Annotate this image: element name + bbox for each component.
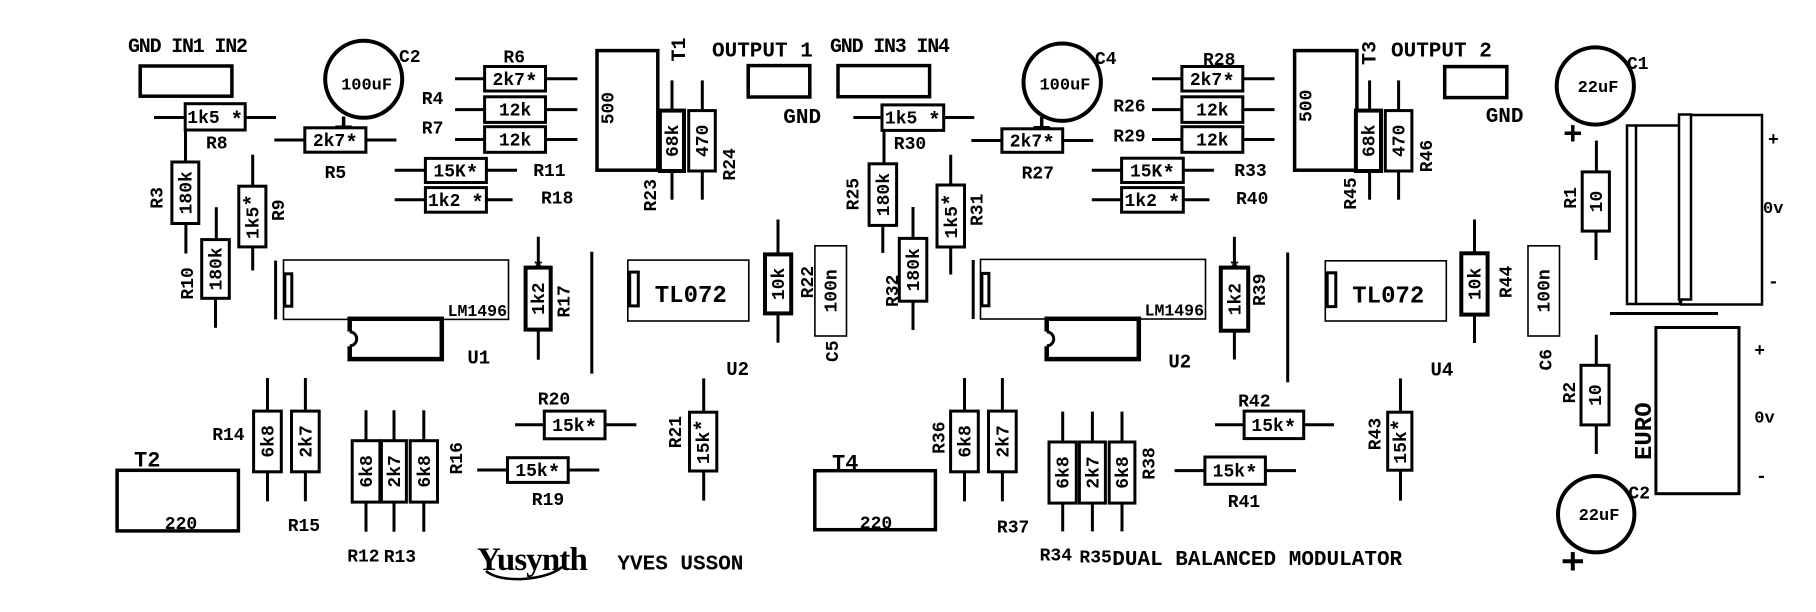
label R15 (288, 517, 320, 537)
svg-text:68k: 68k (1360, 124, 1380, 157)
svg-text:GND IN1 IN2: GND IN1 IN2 (128, 36, 247, 59)
wire (366, 139, 397, 142)
wire (455, 77, 485, 80)
wire (304, 378, 307, 411)
svg-text:R17: R17 (556, 285, 576, 317)
svg-text:100n: 100n (1536, 269, 1556, 312)
wire (912, 207, 915, 238)
svg-text:15k*: 15k* (1390, 419, 1413, 464)
svg-text:R26: R26 (1113, 98, 1145, 118)
svg-text:10k: 10k (770, 267, 790, 300)
svg-text:500: 500 (1298, 90, 1318, 122)
input header label IN3/IN4 (830, 36, 950, 59)
wire (777, 313, 780, 342)
label LM1496 U2b (1145, 302, 1204, 321)
svg-text:470: 470 (1391, 125, 1411, 157)
label R20 (538, 391, 570, 411)
label R35 (1079, 549, 1111, 569)
wire (1152, 108, 1182, 111)
wire (1001, 378, 1004, 411)
svg-text:R35: R35 (1079, 549, 1111, 569)
wire (546, 77, 578, 80)
svg-text:6k8: 6k8 (358, 455, 378, 487)
wire (422, 410, 425, 440)
label R25 (845, 178, 865, 210)
svg-text:R7: R7 (422, 120, 444, 140)
wire (251, 247, 254, 271)
svg-text:1k2: 1k2 (1227, 283, 1247, 315)
svg-text:R37: R37 (997, 518, 1029, 538)
label T2 (134, 449, 160, 474)
wire (912, 301, 915, 330)
svg-text:GND IN3 IN4: GND IN3 IN4 (830, 36, 950, 59)
connector J2 (GND IN3 IN4) (838, 66, 930, 97)
svg-text:Yusynth: Yusynth (477, 542, 587, 578)
svg-text:2k7: 2k7 (1084, 456, 1104, 488)
label R23 (642, 179, 662, 211)
label R28 (1203, 51, 1235, 71)
resistor R7 (485, 127, 546, 153)
svg-text:180k: 180k (208, 247, 228, 290)
svg-text:68k: 68k (664, 124, 684, 157)
capacitor C2 100uF (325, 41, 402, 118)
resistor R12 (352, 441, 380, 502)
input header label IN1/IN2 (128, 36, 247, 59)
resistor R19 (508, 458, 569, 486)
wire (304, 472, 307, 502)
pin1 bar U2b (972, 260, 975, 319)
svg-text:15k*: 15k* (693, 419, 716, 464)
label R38 (1140, 447, 1160, 479)
resistor R25 (869, 164, 897, 226)
wire (1091, 503, 1094, 531)
wire (1368, 171, 1371, 200)
label R24 (721, 148, 741, 181)
wire (702, 378, 705, 412)
wire (546, 108, 578, 111)
svg-text:R15: R15 (288, 517, 320, 537)
label R7 (422, 120, 444, 140)
label R46 (1418, 140, 1438, 172)
svg-text:180k: 180k (875, 173, 895, 216)
svg-text:TL072: TL072 (655, 283, 727, 310)
resistor R6 (485, 67, 546, 95)
resistor R29 (1182, 127, 1243, 153)
transformer T3 500 (1295, 51, 1357, 171)
svg-text:C2: C2 (399, 48, 421, 68)
wire (1610, 312, 1718, 315)
svg-text:R24: R24 (721, 148, 741, 181)
wire (1473, 220, 1476, 254)
wire (1595, 335, 1598, 366)
resistor R37 (989, 411, 1017, 472)
svg-text:R43: R43 (1367, 418, 1387, 450)
svg-text:C1: C1 (1627, 55, 1649, 75)
svg-text:2k7: 2k7 (297, 425, 317, 457)
resistor R40 (1122, 188, 1184, 216)
label R42 (1238, 393, 1270, 413)
svg-text:T1: T1 (669, 37, 692, 61)
label R18 (541, 190, 573, 210)
svg-text:*: * (532, 259, 544, 282)
wire (455, 138, 485, 141)
svg-text:100n: 100n (823, 269, 843, 312)
label R36 (931, 421, 951, 453)
label T3 (1359, 41, 1382, 65)
resistor R13 (381, 441, 406, 502)
label R11 (533, 162, 566, 182)
connector OUTPUT 2 (1445, 67, 1507, 98)
polarity plus C2b (1563, 552, 1583, 570)
label R1 (1562, 187, 1582, 209)
wire (1595, 141, 1598, 172)
op-amp U2 TL072 (628, 260, 749, 321)
wire (486, 169, 517, 172)
label plus bottom (1754, 342, 1765, 362)
svg-text:470: 470 (694, 125, 714, 157)
resistor R3 (172, 162, 199, 224)
svg-text:R31: R31 (969, 193, 989, 226)
wire (274, 139, 305, 142)
resistor R46 470 (1385, 111, 1412, 171)
wire (1040, 117, 1044, 138)
svg-text:+: + (1768, 131, 1779, 151)
resistor R4 (485, 97, 546, 123)
svg-text:R9: R9 (270, 199, 290, 221)
svg-text:C4: C4 (1095, 50, 1117, 70)
label R44 (1497, 265, 1517, 298)
label R37 (997, 518, 1029, 538)
label C5 (824, 340, 844, 362)
credit YVES USSON (617, 554, 743, 577)
connector EURO (1656, 328, 1739, 494)
svg-text:C6: C6 (1538, 349, 1558, 371)
pin1 notch U1 (285, 274, 292, 306)
resistor R21 (690, 412, 717, 471)
wire (1399, 470, 1402, 500)
label R33 (1234, 162, 1266, 182)
svg-text:R38: R38 (1140, 447, 1160, 479)
wire (944, 116, 975, 119)
svg-text:R8: R8 (206, 135, 228, 155)
resistor R17 (526, 259, 551, 330)
resistor R43 (1388, 412, 1413, 470)
wire (1183, 198, 1209, 201)
svg-text:12k: 12k (1196, 132, 1229, 152)
wire (251, 155, 254, 187)
svg-text:R4: R4 (422, 90, 444, 110)
polarity plus C4 (1034, 126, 1050, 130)
resistor R8 (185, 104, 245, 133)
wire (1233, 237, 1236, 268)
wire (949, 247, 952, 275)
label R10 (179, 267, 199, 299)
svg-text:R12: R12 (347, 547, 379, 567)
svg-text:R33: R33 (1234, 162, 1266, 182)
label R43 (1367, 418, 1387, 450)
capacitor C6 100n (1528, 246, 1560, 336)
wire (1265, 469, 1296, 472)
wire (1243, 138, 1275, 141)
svg-text:LM1496: LM1496 (1145, 302, 1204, 321)
svg-text:10: 10 (1587, 384, 1607, 406)
wire (546, 138, 578, 141)
resistor R26 (1182, 97, 1243, 123)
svg-text:GND: GND (783, 107, 821, 130)
capacitor C4 100uF (1023, 43, 1100, 120)
svg-text:12k: 12k (499, 102, 532, 122)
wire (215, 207, 218, 239)
wire (154, 116, 185, 119)
label R34 (1040, 547, 1073, 567)
resistor R31 (937, 185, 965, 247)
resistor R44 (1461, 253, 1487, 314)
label U1 (467, 348, 490, 370)
label GND output 1 (783, 107, 821, 130)
label R3 (149, 187, 169, 209)
svg-text:DUAL BALANCED MODULATOR: DUAL BALANCED MODULATOR (1112, 549, 1402, 572)
label R14 (212, 426, 245, 446)
svg-text:R18: R18 (541, 190, 573, 210)
svg-text:R16: R16 (448, 442, 468, 474)
capacitor C2b 22uF (1558, 476, 1634, 552)
svg-text:1k5*: 1k5* (941, 193, 964, 238)
svg-text:R20: R20 (538, 391, 570, 411)
svg-text:0v: 0v (1763, 200, 1783, 219)
wire (1473, 315, 1476, 343)
svg-text:6k8: 6k8 (259, 425, 279, 457)
label minus top (1768, 273, 1779, 293)
label R29 (1113, 128, 1145, 148)
resistor R2 (1581, 365, 1609, 425)
svg-text:R40: R40 (1236, 190, 1268, 210)
wire (590, 252, 593, 374)
svg-text:OUTPUT 2: OUTPUT 2 (1391, 41, 1492, 64)
wire (184, 130, 187, 162)
resistor R18 (425, 188, 486, 216)
wire (1243, 108, 1275, 111)
wire (1121, 412, 1124, 442)
svg-text:1k2: 1k2 (530, 282, 550, 314)
op-amp U1 socket (284, 260, 509, 319)
label C2 (399, 48, 421, 68)
connector J1 (GND IN1 IN2) (140, 66, 232, 96)
polarity plus C2 (335, 125, 351, 129)
label 0v bottom (1754, 409, 1774, 428)
op-amp U2b socket (981, 259, 1206, 319)
wire (568, 469, 599, 472)
wire (245, 116, 276, 119)
wire (1175, 469, 1205, 472)
resistor R22 (765, 254, 791, 313)
svg-text:22uF: 22uF (1578, 79, 1619, 98)
wire (853, 116, 882, 119)
wire (1368, 80, 1371, 110)
output header label OUTPUT 1 (712, 41, 813, 64)
label R6 (503, 49, 525, 69)
svg-text:R30: R30 (894, 135, 926, 155)
wire (365, 410, 368, 440)
wire (214, 298, 217, 328)
resistor R30 (882, 105, 944, 134)
svg-text:0v: 0v (1754, 409, 1774, 428)
wire (455, 108, 485, 111)
label R41 (1228, 493, 1261, 513)
svg-text:EURO: EURO (1632, 402, 1659, 460)
wire (1121, 503, 1124, 531)
svg-text:U1: U1 (467, 348, 490, 370)
label C4 (1095, 50, 1117, 70)
svg-text:R5: R5 (325, 164, 347, 184)
wire (1286, 253, 1289, 383)
wire (777, 220, 780, 255)
svg-text:180k: 180k (905, 248, 925, 291)
resistor R24 470 (689, 111, 716, 171)
svg-text:R44: R44 (1497, 265, 1517, 298)
svg-text:C5: C5 (824, 340, 844, 362)
svg-text:R29: R29 (1113, 128, 1145, 148)
wire (1152, 77, 1182, 80)
label R32 (884, 275, 904, 307)
label minus bottom (1756, 468, 1767, 488)
resistor R16 (410, 441, 437, 502)
svg-text:2k7: 2k7 (386, 455, 406, 487)
wire (1061, 503, 1064, 531)
label R39 (1251, 274, 1271, 306)
resistor R36 (951, 411, 979, 472)
label R17 (556, 285, 576, 317)
svg-text:6k8: 6k8 (416, 455, 436, 487)
wire (1001, 472, 1004, 502)
label R9 (270, 199, 290, 221)
svg-text:R13: R13 (384, 548, 416, 568)
svg-text:R1: R1 (1562, 187, 1582, 209)
wire (1397, 171, 1400, 200)
svg-text:R32: R32 (884, 275, 904, 307)
svg-text:R27: R27 (1022, 165, 1054, 185)
wire (1399, 378, 1402, 412)
label R16 (448, 442, 468, 474)
resistor R39 (1221, 259, 1248, 331)
op-amp U4 TL072 (1325, 261, 1446, 321)
svg-text:U2: U2 (1168, 352, 1191, 374)
wire (671, 171, 674, 200)
svg-text:C2: C2 (1628, 485, 1650, 505)
wire (1304, 423, 1334, 426)
wire (1183, 169, 1214, 172)
resistor R41 (1205, 457, 1266, 487)
transformer T1 500 (597, 51, 658, 171)
wire (395, 169, 426, 172)
label R8 (206, 135, 228, 155)
label U4 (1431, 360, 1454, 382)
resistor R35 (1079, 442, 1105, 503)
wire (486, 198, 512, 201)
resistor R42 (1244, 411, 1304, 441)
label R13 (384, 548, 416, 568)
wire (1397, 80, 1400, 110)
svg-text:YVES USSON: YVES USSON (617, 554, 743, 577)
label R40 (1236, 190, 1268, 210)
connector OUTPUT 1 (748, 66, 810, 97)
logo Yusynth (477, 542, 587, 579)
power connector MTA (1627, 115, 1762, 305)
wire (1215, 423, 1244, 426)
svg-text:100uF: 100uF (1039, 77, 1090, 96)
wire (395, 198, 426, 201)
label LM1496 U1 (448, 302, 507, 321)
svg-text:R45: R45 (1342, 177, 1362, 209)
wire (1063, 139, 1094, 142)
label U2 (726, 359, 749, 381)
resistor R15 (292, 411, 320, 472)
resistor R32 (899, 238, 927, 301)
wire (365, 502, 368, 532)
wire (971, 139, 1002, 142)
svg-text:22uF: 22uF (1579, 507, 1620, 526)
label C1 (1627, 55, 1649, 75)
resistor R9 (239, 186, 266, 247)
svg-text:R39: R39 (1251, 274, 1271, 306)
svg-text:180k: 180k (177, 171, 197, 214)
svg-text:6k8: 6k8 (1055, 456, 1075, 488)
svg-text:6k8: 6k8 (1114, 456, 1134, 488)
svg-text:T3: T3 (1359, 41, 1382, 65)
resistor R20 (544, 411, 605, 441)
wire (1152, 138, 1182, 141)
wire (671, 80, 674, 110)
resistor R45 68k (1356, 111, 1381, 171)
resistor R5 (305, 128, 366, 156)
svg-text:R25: R25 (845, 178, 865, 210)
transformer T4 220 (815, 471, 936, 535)
svg-text:220: 220 (165, 515, 197, 535)
capacitor C1 22uF (1557, 47, 1634, 124)
wire (422, 502, 425, 532)
svg-text:U2: U2 (726, 359, 749, 381)
label U2b (1168, 352, 1191, 374)
resistor R23 68k (660, 111, 684, 171)
label R19 (532, 491, 564, 511)
svg-text:12k: 12k (1196, 102, 1229, 122)
svg-text:R14: R14 (212, 426, 245, 446)
label C2b (1628, 485, 1650, 505)
output header label OUTPUT 2 (1391, 41, 1492, 64)
svg-text:+: + (1754, 342, 1765, 362)
label R45 (1342, 177, 1362, 209)
label R12 (347, 547, 379, 567)
svg-text:R2: R2 (1561, 382, 1581, 404)
label T1 (669, 37, 692, 61)
svg-text:R41: R41 (1228, 493, 1261, 513)
resistor R27 (1002, 129, 1063, 157)
svg-text:12k: 12k (499, 132, 532, 152)
svg-text:R21: R21 (667, 416, 687, 449)
svg-text:TL072: TL072 (1352, 284, 1424, 311)
wire (515, 423, 544, 426)
label R2 (1561, 382, 1581, 404)
wire (537, 237, 540, 268)
resistor R38 (1109, 442, 1135, 503)
svg-text:6k8: 6k8 (956, 425, 976, 457)
wire (963, 472, 966, 502)
wire (605, 423, 636, 426)
wire (701, 171, 704, 200)
wire (701, 80, 704, 110)
svg-text:-: - (1756, 468, 1767, 488)
label C6 (1538, 349, 1558, 371)
svg-text:GND: GND (1486, 106, 1524, 129)
